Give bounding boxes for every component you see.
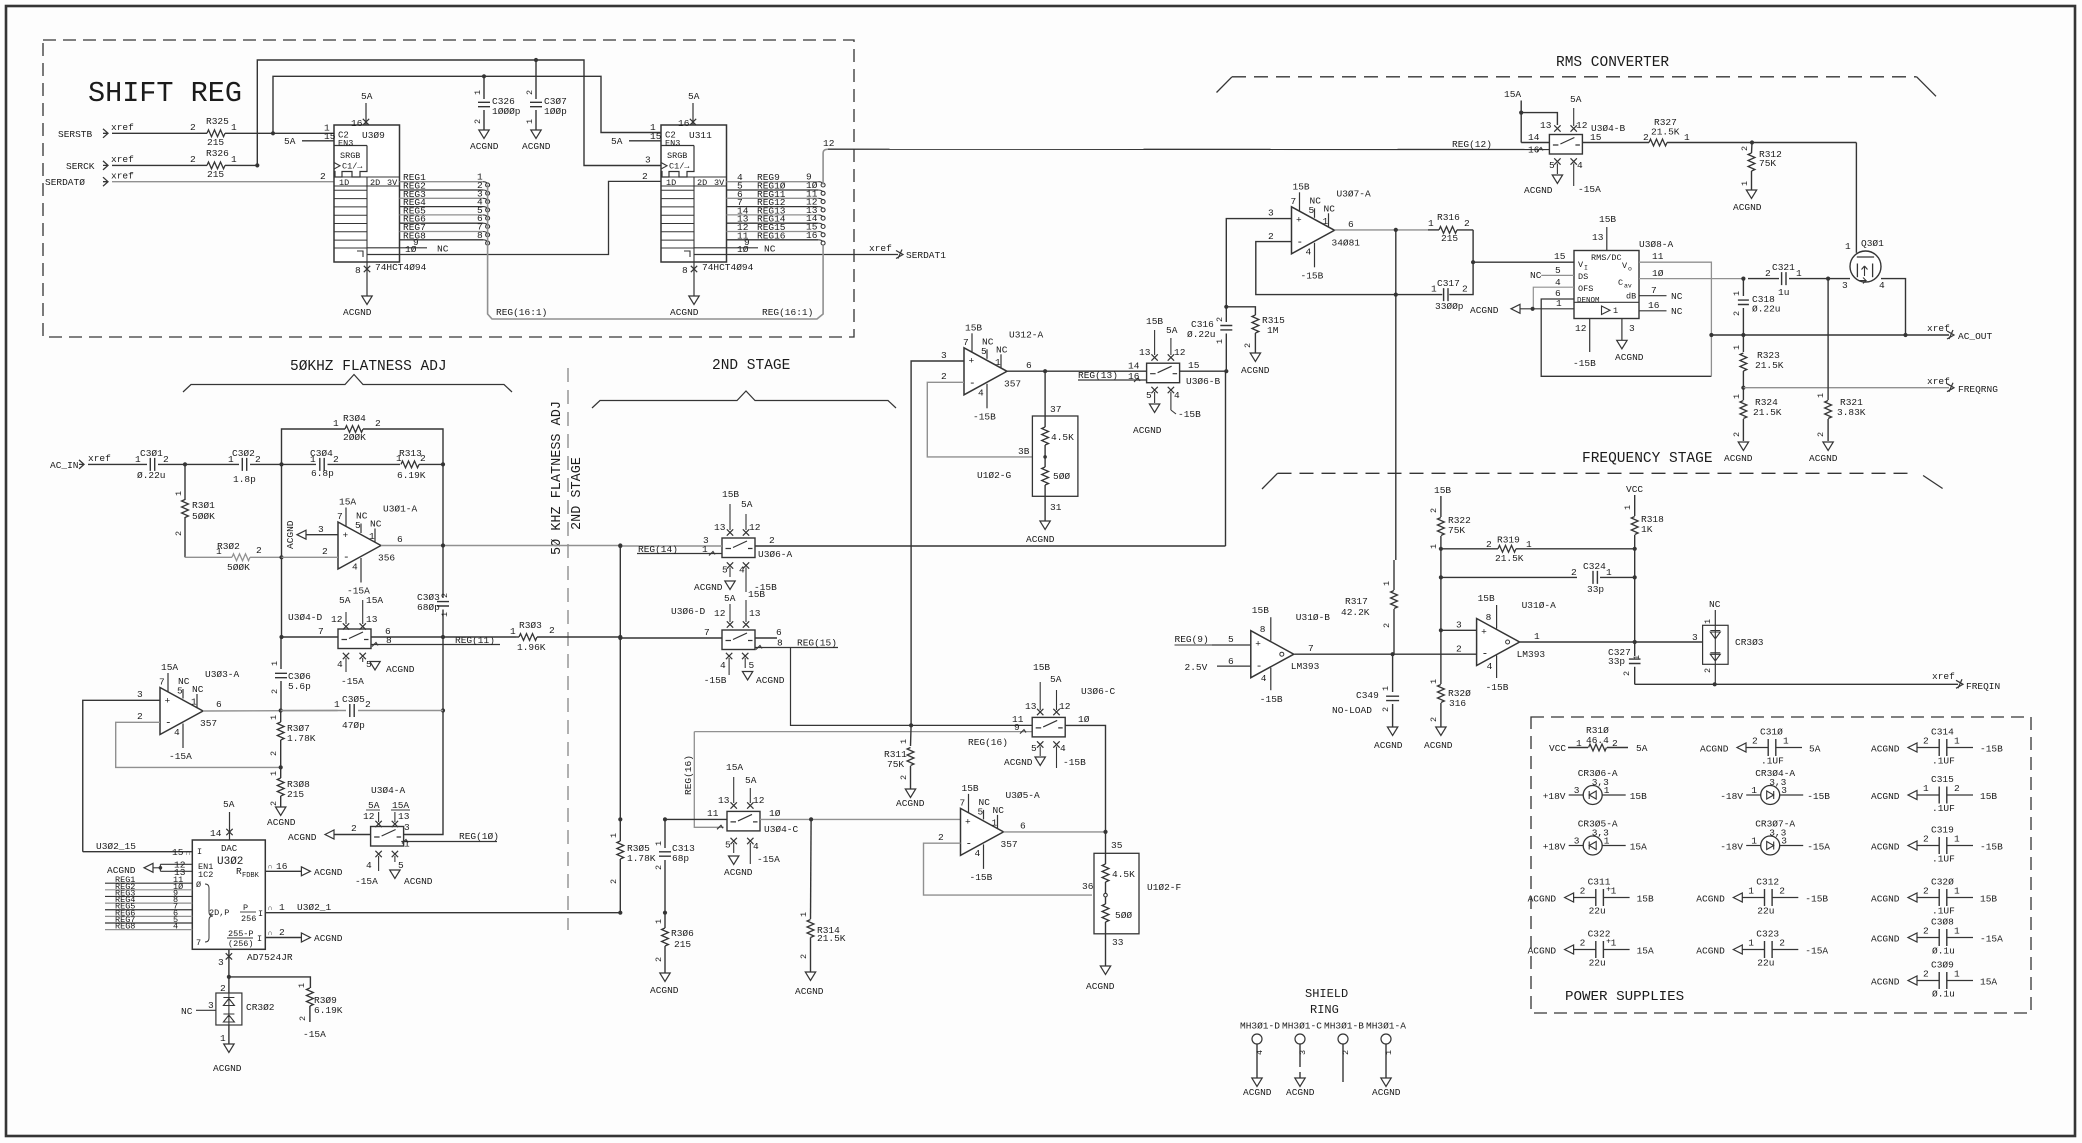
svg-text:2: 2: [549, 625, 555, 636]
wire clock rail to U311 (net SERCK): [257, 60, 661, 166]
svg-text:357: 357: [1004, 378, 1021, 389]
svg-text:16: 16: [806, 230, 818, 241]
junction C324 left: [1439, 575, 1443, 579]
svg-text:2: 2: [190, 154, 196, 165]
svg-text:1: 1: [1748, 886, 1754, 897]
svg-text:NC: NC: [1530, 270, 1542, 281]
wire 2nd stage input column: [619, 546, 621, 638]
wire AC_IN to C301: [88, 463, 147, 465]
svg-text:4: 4: [366, 860, 372, 871]
svg-text:U3Ø3-A: U3Ø3-A: [205, 669, 240, 680]
svg-text:1: 1: [279, 902, 285, 913]
svg-text:2: 2: [440, 593, 450, 598]
svg-text:1: 1: [1954, 926, 1960, 937]
svg-text:2: 2: [1462, 284, 1468, 295]
svg-text:-15B: -15B: [1260, 694, 1283, 705]
svg-text:2: 2: [1571, 567, 1577, 578]
svg-text:-15A: -15A: [1578, 184, 1601, 195]
svg-text:ACGND: ACGND: [1724, 453, 1753, 464]
wire minus column lower: [281, 557, 283, 637]
svg-text:16: 16: [1528, 145, 1540, 156]
svg-text:5: 5: [978, 806, 984, 817]
svg-text:5A: 5A: [1636, 743, 1648, 754]
svg-text:∩: ∩: [268, 864, 272, 872]
svg-text:.1UF: .1UF: [1932, 854, 1955, 865]
junction C316/R315 node: [1224, 305, 1228, 309]
resistor R309: [307, 988, 314, 1006]
svg-text:-18V: -18V: [1720, 842, 1743, 853]
svg-text:12: 12: [331, 614, 343, 625]
svg-text:REG(13): REG(13): [1078, 370, 1118, 381]
svg-text:5A: 5A: [1166, 325, 1178, 336]
wire Q301 source line: [1828, 278, 1850, 280]
U304-D top controls: [343, 623, 349, 629]
svg-text:21.5K: 21.5K: [1753, 407, 1782, 418]
wire U304-C input: [665, 818, 727, 820]
svg-text:316: 316: [1449, 698, 1466, 709]
svg-text:SRGB: SRGB: [340, 151, 360, 161]
wire U301 -input: [282, 556, 339, 558]
svg-text:C32Ø: C32Ø: [1931, 877, 1954, 888]
svg-text:xref: xref: [1932, 671, 1955, 682]
svg-text:1Ø: 1Ø: [1078, 714, 1090, 725]
svg-text:4: 4: [337, 659, 343, 670]
junction C321/Q301 source: [1826, 277, 1830, 281]
svg-text:-15A: -15A: [341, 676, 364, 687]
svg-text:14: 14: [1528, 132, 1540, 143]
svg-text:1: 1: [334, 699, 340, 710]
svg-text:REG(12): REG(12): [1452, 139, 1492, 150]
svg-text:5: 5: [1228, 634, 1234, 645]
wire REG(12) to RMS converter: [828, 148, 1549, 150]
svg-text:1: 1: [1732, 345, 1742, 350]
svg-text:3V: 3V: [387, 178, 398, 188]
svg-text:3: 3: [645, 155, 651, 166]
svg-text:2: 2: [654, 865, 664, 870]
svg-text:5: 5: [1549, 160, 1555, 171]
svg-text:2: 2: [1923, 834, 1929, 845]
svg-text:ACGND: ACGND: [694, 582, 723, 593]
svg-text:C324: C324: [1583, 561, 1606, 572]
svg-text:2: 2: [1923, 969, 1929, 980]
svg-text:1: 1: [231, 154, 237, 165]
svg-text:MH3Ø1-D: MH3Ø1-D: [1240, 1021, 1280, 1032]
svg-text:12: 12: [753, 795, 765, 806]
wire U310-B output: [1295, 653, 1477, 655]
svg-text:1Ø: 1Ø: [769, 808, 781, 819]
svg-text:5: 5: [1555, 265, 1561, 276]
svg-text:U31Ø-A: U31Ø-A: [1522, 600, 1557, 611]
wire R321 column: [1827, 279, 1829, 388]
svg-text:LM393: LM393: [1517, 649, 1546, 660]
junction U306-D input: [618, 636, 622, 640]
svg-text:-: -: [1482, 649, 1489, 661]
svg-text:11: 11: [1012, 714, 1024, 725]
wire U302 pins 12/13 to ACGND: [144, 863, 153, 872]
svg-text:356: 356: [378, 553, 395, 564]
svg-text:4.5K: 4.5K: [1051, 432, 1074, 443]
svg-text:6: 6: [1020, 821, 1026, 832]
svg-text:ACGND: ACGND: [1733, 202, 1762, 213]
svg-text:6.8p: 6.8p: [311, 468, 334, 479]
svg-text:16: 16: [1128, 371, 1140, 382]
svg-text:Ø.1u: Ø.1u: [1932, 946, 1955, 957]
resistor R307: [280, 711, 282, 723]
svg-text:5A: 5A: [611, 136, 623, 147]
svg-text:NC: NC: [178, 676, 190, 687]
analog switch U304-A: [371, 827, 404, 847]
svg-text:5: 5: [355, 520, 361, 531]
section bracket 2ND STAGE: [592, 391, 896, 408]
svg-text:R316: R316: [1437, 212, 1460, 223]
svg-text:1: 1: [899, 739, 909, 744]
svg-text:av: av: [1624, 283, 1632, 290]
svg-text:4: 4: [1577, 160, 1583, 171]
svg-text:3: 3: [208, 1000, 214, 1011]
svg-text:4: 4: [978, 387, 984, 398]
svg-text:.1UF: .1UF: [1761, 756, 1784, 767]
svg-text:NC: NC: [437, 244, 449, 255]
svg-text:(256): (256): [228, 939, 254, 949]
svg-text:xref: xref: [111, 122, 134, 133]
svg-text:2: 2: [1732, 311, 1742, 316]
svg-text:1: 1: [1606, 567, 1612, 578]
svg-text:15B: 15B: [1434, 485, 1451, 496]
wires U302 data inputs REG1-REG8: [105, 882, 192, 884]
svg-text:37: 37: [1050, 404, 1061, 415]
svg-text:15A: 15A: [339, 497, 356, 508]
wire U310-A output: [1520, 641, 1703, 643]
wire U312 output: [1007, 370, 1147, 372]
svg-text:1: 1: [1684, 132, 1690, 143]
svg-text:2: 2: [1923, 736, 1929, 747]
svg-text:ACGND: ACGND: [522, 141, 551, 152]
svg-text:-: -: [966, 839, 973, 851]
svg-text:5ØØ: 5ØØ: [1115, 910, 1132, 921]
resistor R322: [1440, 496, 1442, 517]
svg-text:1: 1: [191, 697, 197, 708]
svg-text:-15B: -15B: [1805, 894, 1828, 905]
svg-text:15B: 15B: [722, 489, 739, 500]
junction R312 tap: [1750, 140, 1754, 144]
svg-text:13: 13: [398, 811, 410, 822]
svg-text:.1UF: .1UF: [1932, 906, 1955, 917]
wire C304 to R313: [328, 463, 401, 465]
wire 15A to U304-B: [1520, 101, 1522, 143]
svg-text:NC: NC: [1671, 291, 1683, 302]
svg-text:NC: NC: [764, 244, 776, 255]
svg-text:14: 14: [210, 828, 222, 839]
svg-text:1: 1: [1428, 218, 1434, 229]
svg-text:2: 2: [899, 775, 909, 780]
svg-text:2: 2: [1765, 268, 1771, 279]
svg-text:I: I: [258, 909, 263, 919]
wire U304-D output: [371, 636, 443, 638]
capacitor C326: [483, 76, 485, 99]
junction C313 bottom: [663, 911, 667, 915]
op-amp U303-A: [160, 688, 203, 735]
svg-text:15: 15: [324, 131, 336, 142]
wire U306-D input: [620, 637, 722, 639]
wire U308 OFS loop: [1533, 287, 1574, 309]
U306-C bottom controls: [1037, 741, 1043, 747]
svg-text:-15A: -15A: [1980, 934, 2003, 945]
svg-text:3B: 3B: [1018, 446, 1030, 457]
junction minus-node top: [279, 462, 283, 466]
svg-text:5A: 5A: [745, 775, 757, 786]
svg-text:1Ø: 1Ø: [1652, 268, 1664, 279]
svg-text:1: 1: [1611, 886, 1617, 897]
svg-text:12: 12: [1059, 701, 1071, 712]
svg-text:1ØØp: 1ØØp: [544, 106, 567, 117]
svg-text:12: 12: [363, 811, 375, 822]
svg-text:1: 1: [510, 626, 516, 637]
resistor R312: [1751, 143, 1754, 154]
svg-text:C317: C317: [1437, 278, 1460, 289]
svg-text:C3Ø1: C3Ø1: [140, 448, 163, 459]
svg-text:15B: 15B: [1146, 316, 1163, 327]
svg-text:2: 2: [279, 927, 285, 938]
svg-text:357: 357: [1001, 839, 1018, 850]
svg-text:16: 16: [276, 861, 288, 872]
svg-text:35: 35: [1111, 840, 1123, 851]
svg-text:4: 4: [1261, 673, 1267, 684]
svg-text:1.78K: 1.78K: [627, 853, 656, 864]
ground ACGND R306: [660, 973, 670, 982]
svg-text:15: 15: [1590, 132, 1602, 143]
svg-text:DS: DS: [1578, 272, 1588, 282]
U306-A bottom controls: [727, 562, 733, 568]
svg-text:1Ø: 1Ø: [737, 244, 749, 255]
vertical dashed separator 2nd stage: [567, 368, 569, 930]
svg-text:REG(15): REG(15): [797, 638, 837, 649]
svg-text:357: 357: [200, 718, 217, 729]
svg-text:xref: xref: [111, 170, 134, 181]
svg-text:2: 2: [1341, 1050, 1351, 1055]
resistor R323: [1742, 335, 1744, 352]
capacitor C318: [1742, 279, 1744, 296]
svg-text:13: 13: [718, 795, 730, 806]
svg-text:ACGND: ACGND: [1871, 894, 1900, 905]
junction C317/minus node: [1394, 293, 1398, 297]
svg-text:5: 5: [981, 346, 987, 357]
svg-text:2: 2: [1923, 926, 1929, 937]
analog switch U304-D: [338, 629, 371, 649]
svg-text:1D: 1D: [339, 178, 349, 188]
junction U303 out / C306 column: [279, 708, 283, 712]
analog switch U306-B: [1147, 363, 1180, 383]
svg-text:2: 2: [1779, 886, 1785, 897]
U306-D top controls: [727, 621, 733, 627]
svg-text:1: 1: [1534, 631, 1540, 642]
svg-text:-15B: -15B: [970, 872, 993, 883]
resistor R305: [619, 819, 621, 841]
svg-text:2: 2: [1622, 671, 1632, 676]
svg-text:-15A: -15A: [757, 854, 780, 865]
diode pair CR302: [228, 977, 230, 993]
wire REG(13) control: [1078, 379, 1147, 381]
svg-text:1: 1: [1604, 836, 1610, 847]
svg-text:75K: 75K: [887, 759, 904, 770]
comparator U310-A: [1477, 619, 1520, 666]
svg-text:REG(16): REG(16): [683, 755, 694, 795]
analog switch U304-C: [727, 811, 760, 831]
svg-text:1: 1: [269, 771, 279, 776]
junction C305 right node: [441, 708, 445, 712]
svg-text:4: 4: [1879, 280, 1885, 291]
svg-text:-15B: -15B: [1301, 270, 1324, 281]
svg-text:SERCK: SERCK: [66, 161, 95, 172]
wire U308 pin12 -15B: [1589, 319, 1591, 353]
ground ACGND R315: [1250, 353, 1260, 362]
svg-text:+: +: [1255, 639, 1261, 650]
svg-text:15: 15: [172, 847, 184, 858]
svg-text:1: 1: [1816, 393, 1826, 398]
svg-text:215: 215: [287, 789, 304, 800]
wire Q301 gate: [1855, 143, 1857, 253]
svg-text:2: 2: [1612, 738, 1618, 749]
capacitor C313: [664, 819, 666, 848]
svg-text:1.78K: 1.78K: [287, 733, 316, 744]
capacitor C316: [1225, 334, 1227, 372]
svg-text:REG8: REG8: [115, 922, 135, 932]
svg-text:1: 1: [1613, 306, 1618, 316]
svg-text:Ø: Ø: [196, 880, 201, 890]
transistor Q301: [1850, 251, 1881, 282]
U302 pin3 node: [228, 949, 230, 977]
wire U309 pin9 NC: [367, 247, 427, 249]
svg-text:7: 7: [704, 627, 710, 638]
U306-B top controls: [1151, 354, 1157, 360]
svg-text:ACGND: ACGND: [1286, 1087, 1315, 1098]
svg-text:75K: 75K: [1759, 158, 1776, 169]
svg-text:2D,P: 2D,P: [209, 908, 229, 918]
svg-text:ACGND: ACGND: [650, 985, 679, 996]
svg-text:I: I: [1584, 265, 1588, 272]
svg-text:16: 16: [351, 118, 363, 129]
junction FREQRNG node: [1741, 386, 1745, 390]
svg-text:SHIFT REG: SHIFT REG: [88, 77, 242, 110]
svg-text:15A: 15A: [1637, 946, 1654, 957]
wire R318 column mid: [1634, 549, 1636, 642]
svg-text:1: 1: [654, 919, 664, 924]
svg-text:-: -: [969, 378, 976, 390]
svg-text:ACGND: ACGND: [1696, 894, 1725, 905]
svg-text:2: 2: [1215, 317, 1225, 322]
junction R313 output node: [441, 462, 445, 466]
svg-text:5ØKHZ FLATNESS ADJ: 5ØKHZ FLATNESS ADJ: [290, 359, 447, 375]
svg-text:1C2: 1C2: [198, 870, 213, 880]
svg-text:REG(16:1): REG(16:1): [496, 307, 547, 318]
svg-text:ACGND: ACGND: [1004, 757, 1033, 768]
svg-text:5A: 5A: [284, 136, 296, 147]
svg-text:2: 2: [642, 171, 648, 182]
svg-text:22u: 22u: [1757, 906, 1774, 917]
wire U302 RFDBK pin16 to ACGND: [265, 870, 301, 872]
wire U303 +input: [83, 700, 160, 851]
capacitor C306: [280, 637, 282, 669]
resistor R301: [184, 464, 186, 500]
svg-text:2: 2: [322, 546, 328, 557]
wires U311 outputs REG9-REG16 with bus taps: [727, 181, 819, 183]
svg-text:1: 1: [440, 612, 450, 617]
svg-text:1: 1: [1732, 394, 1742, 399]
svg-text:6: 6: [1026, 360, 1032, 371]
junction SERCK clock: [255, 163, 259, 167]
svg-text:R313: R313: [399, 448, 422, 459]
svg-text:2: 2: [1779, 938, 1785, 949]
svg-text:11: 11: [1652, 251, 1664, 262]
svg-text:1: 1: [404, 839, 410, 850]
svg-text:-15A: -15A: [1805, 946, 1828, 957]
junction R305 bottom: [618, 911, 622, 915]
svg-text:-: -: [1256, 661, 1263, 673]
svg-text:4.5K: 4.5K: [1112, 869, 1135, 880]
svg-text:ACGND: ACGND: [213, 1063, 242, 1074]
svg-text:C349: C349: [1356, 690, 1379, 701]
capacitor C317: [1449, 262, 1473, 294]
svg-text:ACGND: ACGND: [1528, 946, 1557, 957]
svg-text:-15B: -15B: [704, 675, 727, 686]
wire Cav line: [1639, 278, 1743, 280]
svg-text:NC: NC: [982, 336, 994, 347]
wire U308 pin1 to ACGND: [1511, 304, 1520, 313]
svg-text:2ND STAGE: 2ND STAGE: [712, 358, 790, 374]
wire R322 column to +input: [1440, 549, 1442, 631]
svg-text:ACGND: ACGND: [267, 817, 296, 828]
svg-text:-15A: -15A: [303, 1029, 326, 1040]
svg-text:2: 2: [1643, 132, 1649, 143]
svg-text:C323: C323: [1756, 929, 1779, 940]
svg-text:NC: NC: [1671, 306, 1683, 317]
svg-text:ACGND: ACGND: [314, 867, 343, 878]
svg-text:1: 1: [1954, 736, 1960, 747]
svg-text:68p: 68p: [672, 853, 689, 864]
svg-text:xref: xref: [111, 154, 134, 165]
svg-text:1: 1: [654, 841, 664, 846]
svg-text:2: 2: [1703, 668, 1713, 673]
svg-text:33p: 33p: [1608, 656, 1625, 667]
svg-text:U3Ø6-B: U3Ø6-B: [1186, 376, 1221, 387]
junction U306-A input: [618, 544, 622, 548]
svg-text:3V: 3V: [714, 178, 725, 188]
svg-text:C314: C314: [1931, 727, 1954, 738]
resistor network U102-G: [1032, 416, 1078, 496]
svg-text:∩: ∩: [268, 905, 272, 913]
svg-text:2: 2: [609, 879, 619, 884]
junction C307 tap: [534, 58, 538, 62]
junction R307/R308 node: [279, 765, 283, 769]
wire U302_1 output: [265, 912, 620, 914]
wire U308 pin3 ACGND: [1621, 319, 1623, 341]
svg-text:1: 1: [1740, 181, 1750, 186]
svg-text:5ØØ: 5ØØ: [1053, 471, 1070, 482]
wire R325 to U309 pin1 C2: [236, 132, 334, 134]
op-amp U305-A: [961, 808, 1004, 855]
svg-text:5: 5: [177, 686, 183, 697]
svg-text:5: 5: [722, 565, 728, 576]
svg-text:U3Ø6-C: U3Ø6-C: [1081, 686, 1116, 697]
svg-text:1: 1: [270, 661, 280, 666]
svg-text:NC: NC: [356, 511, 368, 522]
svg-text:1: 1: [1215, 339, 1225, 344]
wire U311 pin10 SERDAT1 out: [694, 254, 898, 256]
wire U303 -input loop: [116, 722, 281, 767]
svg-text:15B: 15B: [962, 783, 979, 794]
svg-text:P: P: [243, 903, 248, 913]
wire U309 pin10 cascade to U311 pin2: [367, 181, 661, 254]
bus REG(16:1) riser to REG12 tap: [822, 153, 824, 185]
